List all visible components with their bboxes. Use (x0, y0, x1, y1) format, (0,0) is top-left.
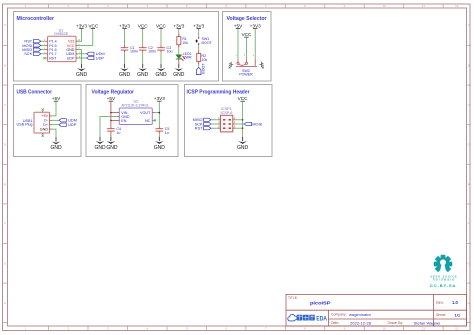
wire VIN stub (111, 112, 119, 114)
svg-text:+3V3: +3V3 (173, 23, 184, 28)
pin stub U2 GND (117, 116, 120, 118)
power VCC above C3 (156, 23, 167, 28)
wire GND pin down (76, 50, 82, 64)
power +5V regulator (107, 96, 116, 101)
svg-text:A: A (4, 23, 6, 27)
ground under USB1 (50, 137, 62, 151)
svg-text:USB Connector: USB Connector (17, 90, 53, 96)
svg-text:+5V: +5V (107, 96, 116, 101)
svg-text:NC: NC (145, 119, 151, 123)
svg-text:VCC: VCC (138, 23, 149, 28)
ground under C3 (155, 64, 167, 78)
svg-text:+3V3: +3V3 (76, 23, 87, 28)
title block table (286, 295, 467, 327)
ground under C4 (107, 137, 116, 144)
wire +5V pin up to power (52, 101, 56, 116)
svg-text:Drawn By:: Drawn By: (388, 321, 404, 325)
capacitor C3 (157, 45, 172, 53)
no-connect NC stub (152, 119, 156, 121)
wire D+ to UDP flag (52, 124, 59, 126)
wire VCC to C3 (160, 28, 162, 45)
svg-text:100n: 100n (130, 50, 138, 54)
wire VCC pin to VCC power (76, 28, 93, 45)
svg-text:Voltage Selector: Voltage Selector (227, 16, 268, 22)
svg-text:GND: GND (40, 127, 49, 131)
wire EN stub (111, 119, 119, 121)
svg-text:1/1: 1/1 (455, 312, 461, 317)
svg-text:CC-BY-SA: CC-BY-SA (430, 283, 456, 288)
wire R2 to BOOT flag (198, 64, 200, 66)
svg-text:RST: RST (195, 126, 203, 131)
ground under C1 (119, 64, 131, 78)
wire D- to UDM flag (52, 119, 59, 121)
mounting flag right of SW2 (259, 62, 263, 68)
wire C4 to gnd (110, 133, 112, 136)
resistor R1 (177, 34, 188, 48)
ground icsp (237, 137, 249, 151)
svg-text:B: B (468, 63, 470, 67)
svg-text:D+: D+ (43, 123, 48, 127)
title block texts row3 (331, 320, 441, 325)
svg-text:BOOT: BOOT (202, 41, 213, 45)
svg-text:+3V3: +3V3 (119, 23, 130, 28)
pin numbers U1 (44, 40, 81, 59)
wire VCC to SW2 pin2 (245, 37, 247, 59)
svg-text:A: A (468, 23, 470, 27)
no-connect x on RST pin (43, 57, 45, 59)
svg-text:EDA: EDA (316, 317, 327, 323)
svg-text:BOOT: BOOT (202, 63, 206, 74)
capacitor C5 (156, 126, 170, 134)
svg-text:GND: GND (106, 145, 118, 151)
wire VCC down to pin2 and on to gnd (242, 101, 244, 137)
svg-text:+3V3: +3V3 (250, 23, 261, 28)
svg-text:Stefan Wagner: Stefan Wagner (414, 320, 442, 325)
svg-text:hardware: hardware (433, 278, 455, 282)
wire V33 to +3V3 (76, 28, 82, 41)
svg-text:Microcontroller: Microcontroller (17, 16, 55, 22)
svg-text:ICSP-6: ICSP-6 (221, 111, 233, 115)
logo JLC EDA (288, 314, 328, 322)
svg-text:AP2112K-3.3TRG1: AP2112K-3.3TRG1 (121, 103, 148, 107)
mounting flag left of SW2 (229, 62, 233, 68)
wire VCC to C2 (142, 28, 144, 45)
LED LED1 PWR (176, 52, 192, 61)
node SCK flag icsp (195, 121, 211, 126)
logo open source hardware gear (434, 255, 453, 273)
svg-text:F: F (4, 222, 6, 226)
no-connect x right mount (262, 67, 264, 69)
wire +3V3 to R1 (178, 28, 180, 33)
shield pin stub bottom with x (42, 133, 44, 137)
ground under C5 (154, 137, 166, 151)
capacitor C4 (107, 126, 121, 134)
svg-text:E: E (4, 182, 6, 186)
svg-text:100n: 100n (148, 50, 156, 54)
svg-text:E: E (468, 182, 470, 186)
svg-text:REV:: REV: (436, 301, 444, 305)
svg-text:MOSI: MOSI (252, 121, 262, 126)
svg-text:12: 12 (455, 4, 459, 8)
wire GND pin left and down (100, 117, 117, 137)
svg-text:+5V: +5V (41, 114, 48, 118)
ground left under regulator (94, 137, 106, 151)
svg-text:wagiminator: wagiminator (349, 312, 372, 317)
svg-text:VCC: VCC (238, 96, 249, 101)
svg-text:Company:: Company: (331, 313, 347, 317)
header ICSP1 ICSP-6 (218, 107, 236, 132)
svg-text:11: 11 (422, 4, 425, 8)
regulator U2 AP2112K-3.3TRG1 (119, 100, 152, 125)
node MOSI flag icsp (244, 121, 262, 126)
wire U1 left pin stubs (41, 41, 48, 58)
shield pin stub top with x (42, 108, 44, 112)
wire LED1 to gnd (178, 59, 180, 64)
power +3V3 above R1 (173, 23, 184, 28)
wire GND pin down (52, 129, 56, 137)
svg-text:UDP: UDP (67, 56, 75, 60)
wire SCK to pin3 (211, 123, 218, 125)
no-connect x left mount (229, 67, 231, 69)
wire +3V3 to C1 (124, 28, 126, 45)
wire +3V3 to SW1 (198, 28, 200, 36)
svg-text:1u: 1u (165, 131, 169, 135)
svg-text:B: B (4, 63, 6, 67)
svg-text:+3V3: +3V3 (193, 23, 204, 28)
wire C5 to gnd (158, 133, 160, 136)
svg-text:VOUT: VOUT (140, 111, 151, 115)
svg-text:Sheet:: Sheet: (436, 313, 446, 317)
power +3V3 above SW1 (193, 23, 204, 28)
wire VOUT stub (152, 112, 155, 114)
svg-text:Date:: Date: (331, 321, 339, 325)
svg-text:picoISP: picoISP (310, 300, 331, 306)
power VCC selector (241, 32, 252, 37)
svg-text:UDP: UDP (96, 55, 105, 60)
svg-text:CH552E: CH552E (54, 32, 69, 36)
power VCC icsp (238, 96, 249, 101)
svg-text:1.0: 1.0 (452, 300, 458, 305)
svg-text:USB Plug: USB Plug (17, 123, 33, 127)
wire pin6 stub (233, 127, 236, 129)
ground under LED1 (173, 64, 185, 78)
connector USB1 USB Plug (17, 112, 50, 133)
block Microcontroller (14, 12, 219, 82)
wire MISO to pin1 (211, 119, 218, 121)
wire SW1 to R2 (198, 45, 200, 50)
svg-text:SCK: SCK (24, 51, 32, 56)
wire +3V3 to SW2 pin3 (254, 28, 256, 59)
power VCC above C2 (138, 23, 149, 28)
op-amp U1 CH552E body (48, 28, 76, 61)
power +3V3 selector (250, 23, 261, 28)
wire UDP stub (76, 57, 87, 59)
wire C3 to gnd (160, 52, 162, 64)
junction pin2 VCC (242, 119, 244, 121)
power +3V3 above U1 (76, 23, 87, 28)
svg-text:H: H (468, 301, 470, 305)
junction EN (110, 120, 112, 122)
wire R1 to LED1 (178, 48, 180, 55)
node MISO flag (22, 47, 41, 52)
svg-text:+5V: +5V (52, 96, 61, 101)
ground under C2 (137, 64, 149, 78)
block Voltage Selector (223, 12, 272, 82)
logo OSHW text (430, 274, 457, 288)
node RST flag icsp (195, 126, 211, 131)
pin stubs USB1 (50, 116, 53, 129)
svg-text:PWR: PWR (183, 55, 192, 59)
capacitor C2 (139, 45, 156, 53)
svg-text:VCC: VCC (241, 32, 252, 37)
svg-text:10: 10 (382, 327, 386, 331)
svg-text:10u: 10u (167, 50, 173, 54)
svg-text:Voltage Regulator: Voltage Regulator (92, 90, 135, 96)
svg-text:2022-12-28: 2022-12-28 (350, 320, 372, 325)
svg-text:RST: RST (49, 56, 57, 60)
wire UDM stub (76, 53, 87, 55)
svg-text:10k: 10k (182, 41, 188, 45)
svg-text:VCC: VCC (88, 23, 99, 28)
wire pin4 to MOSI flag (233, 123, 236, 125)
svg-text:12: 12 (455, 327, 459, 331)
node MISO flag icsp (193, 117, 211, 122)
node UDM flag (87, 51, 105, 56)
node RST flag (24, 39, 40, 44)
junction VIN (110, 112, 112, 114)
capacitor C1 (121, 45, 138, 53)
junction pin6 GND (242, 127, 244, 129)
ground under U1 (76, 64, 88, 78)
junction VOUT (159, 112, 161, 114)
power +3V3 regulator (154, 96, 165, 101)
node UDM flag usb (59, 118, 77, 123)
title block texts row1 (288, 296, 458, 306)
block Voltage Regulator (86, 85, 178, 157)
block USB Connector (14, 85, 82, 157)
node SCK flag (24, 51, 41, 56)
power +5V selector (234, 23, 243, 28)
switch SW2 POWER (235, 55, 257, 76)
svg-text:VCC: VCC (156, 23, 167, 28)
wire C1 to gnd (124, 52, 126, 64)
svg-text:11: 11 (422, 327, 425, 331)
svg-text:UDP: UDP (68, 122, 77, 127)
svg-text:10: 10 (382, 4, 386, 8)
svg-text:POWER: POWER (239, 73, 253, 77)
wire +5V down through VIN EN to C4 (110, 101, 112, 126)
svg-text:1u: 1u (116, 131, 120, 135)
svg-text:TITLE:: TITLE: (288, 296, 298, 300)
power +5V above USB1 (52, 96, 61, 101)
wire RST to pin5 (211, 127, 218, 129)
wire C2 to gnd (142, 52, 144, 64)
wire pin2 stub (233, 119, 236, 121)
power VCC above U1 (88, 23, 99, 28)
svg-text:F: F (468, 222, 470, 226)
node UDP flag usb (59, 122, 77, 127)
power +3V3 above C1 (119, 23, 130, 28)
svg-text:+3V3: +3V3 (154, 96, 165, 101)
switch SW1 BOOT (196, 37, 213, 46)
node BOOT flag (196, 63, 205, 75)
svg-text:ICSP Programming Header: ICSP Programming Header (187, 90, 251, 96)
resistor R2 (197, 50, 208, 64)
wire +5V to SW2 pin1 (237, 28, 239, 59)
node MOSI flag (22, 43, 41, 48)
wire +3V3 down to VOUT and C5 (158, 101, 160, 126)
title block texts row2 (331, 312, 461, 318)
svg-text:+5V: +5V (234, 23, 243, 28)
svg-text:H: H (4, 301, 6, 305)
node UDP flag (87, 55, 105, 60)
svg-text:EN: EN (121, 119, 126, 123)
svg-text:10k: 10k (202, 58, 208, 62)
block ICSP Programming Header (185, 85, 273, 157)
